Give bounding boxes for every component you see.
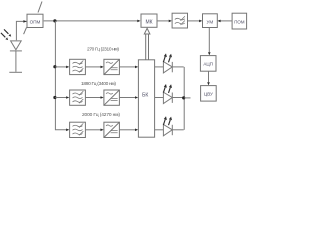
svg-text:БК: БК bbox=[142, 93, 148, 99]
arrowhead into row3 detector bbox=[101, 129, 104, 132]
UM box amplifier bbox=[203, 14, 218, 28]
MK box microcontroller bbox=[141, 14, 157, 27]
light arrow 1 into photodiode bbox=[4, 29, 11, 36]
arrowhead into row1 detector bbox=[101, 66, 104, 69]
LED HL3 bbox=[163, 125, 183, 136]
POM box bbox=[232, 13, 247, 29]
svg-text:УМ: УМ bbox=[207, 19, 214, 24]
arrowhead into CVU top bbox=[207, 82, 210, 85]
node: junction dot row1 bbox=[53, 65, 56, 68]
wire: MK to low-pass filter bbox=[157, 20, 169, 22]
BK box commutation block bbox=[138, 60, 154, 137]
arrowhead into BK row3 bbox=[135, 129, 138, 132]
adjustment diagonal arrow over box A bbox=[24, 2, 42, 35]
wire: BK to LED1 bbox=[155, 66, 163, 68]
svg-text:ЦВУ: ЦВУ bbox=[204, 91, 213, 96]
wire: LED common bus bbox=[183, 67, 185, 130]
wire: POM to UM bbox=[221, 20, 232, 22]
svg-text:ПОМ: ПОМ bbox=[234, 19, 245, 24]
svg-text:270 Гц (2310 нм): 270 Гц (2310 нм) bbox=[87, 47, 119, 53]
bandpass filter Z1 row1 bbox=[70, 59, 86, 74]
wire: BK to LED3 bbox=[155, 129, 163, 131]
wire: left vertical bus bbox=[55, 21, 66, 130]
low-pass filter Z4 top bbox=[172, 13, 187, 28]
wire: BK to LED2 bbox=[155, 97, 163, 99]
svg-text:ОПМ: ОПМ bbox=[30, 20, 41, 25]
bandpass filter Z3 row3 bbox=[70, 122, 86, 137]
wire: row1 filter to detector bbox=[86, 66, 101, 68]
svg-text:МК: МК bbox=[145, 19, 152, 25]
wire: UM down to ADC bbox=[208, 28, 210, 53]
node: junction dot top bus bbox=[53, 19, 56, 22]
wire: bus to row2 filter bbox=[55, 97, 66, 99]
wire: row1 detector to BK bbox=[120, 66, 136, 68]
arrowhead into BK row1 bbox=[135, 66, 138, 69]
wire: row2 detector to BK bbox=[120, 97, 136, 99]
emission arrows LED2 bbox=[163, 84, 172, 93]
arrowhead into ADC top bbox=[208, 52, 211, 55]
wire: bus to row1 filter bbox=[55, 66, 66, 68]
synchronous detector U3 row3 bbox=[104, 122, 120, 137]
arrowhead into MK bbox=[137, 20, 140, 23]
box A (ОПМ) photoreceiver module bbox=[27, 14, 43, 27]
arrowhead into UM right bbox=[217, 20, 220, 23]
node: junction dot LED bus bbox=[182, 96, 185, 99]
svg-text:АЦП: АЦП bbox=[203, 61, 213, 66]
synchronous detector U2 row2 bbox=[104, 90, 120, 105]
arrowhead into BK row2 bbox=[135, 96, 138, 99]
arrowhead into UM left bbox=[199, 20, 202, 23]
wire: stub from LED bus bbox=[184, 97, 190, 99]
synchronous detector U1 row1 bbox=[104, 59, 120, 74]
wire: top bus from box A to MK bbox=[44, 20, 138, 22]
CVU box bbox=[201, 86, 217, 102]
LED HL1 bbox=[163, 62, 183, 73]
wire: row2 filter to detector bbox=[86, 97, 101, 99]
arrowhead into LPF bbox=[169, 20, 172, 23]
wire: LPF to UM bbox=[188, 20, 200, 22]
light arrow 2 into photodiode bbox=[1, 33, 8, 40]
arrowhead into box A bbox=[23, 20, 26, 23]
wire: ADC to CVU bbox=[208, 71, 210, 82]
LED HL2 bbox=[163, 92, 183, 103]
arrowhead into row2 detector bbox=[101, 96, 104, 99]
emission arrows LED1 bbox=[163, 53, 172, 62]
bandpass filter Z2 row2 bbox=[70, 90, 86, 105]
ADC box bbox=[200, 56, 216, 72]
emission arrows LED3 bbox=[163, 116, 172, 125]
photodiode VD1 bbox=[9, 41, 22, 72]
wire: row3 detector to BK bbox=[120, 129, 136, 131]
arrowhead into row3 filter bbox=[66, 129, 69, 132]
wire: row3 filter to detector bbox=[86, 129, 101, 131]
wire: box A to photodiode bbox=[16, 21, 26, 40]
node: junction dot row2 bbox=[53, 96, 56, 99]
hollow control arrow BK to MK bbox=[144, 28, 150, 59]
svg-text:1890 Гц (3400 нм): 1890 Гц (3400 нм) bbox=[81, 81, 116, 87]
svg-text:2000 Гц (4270 нм): 2000 Гц (4270 нм) bbox=[82, 112, 120, 118]
arrowhead into row2 filter bbox=[66, 96, 69, 99]
arrowhead into row1 filter bbox=[66, 66, 69, 69]
